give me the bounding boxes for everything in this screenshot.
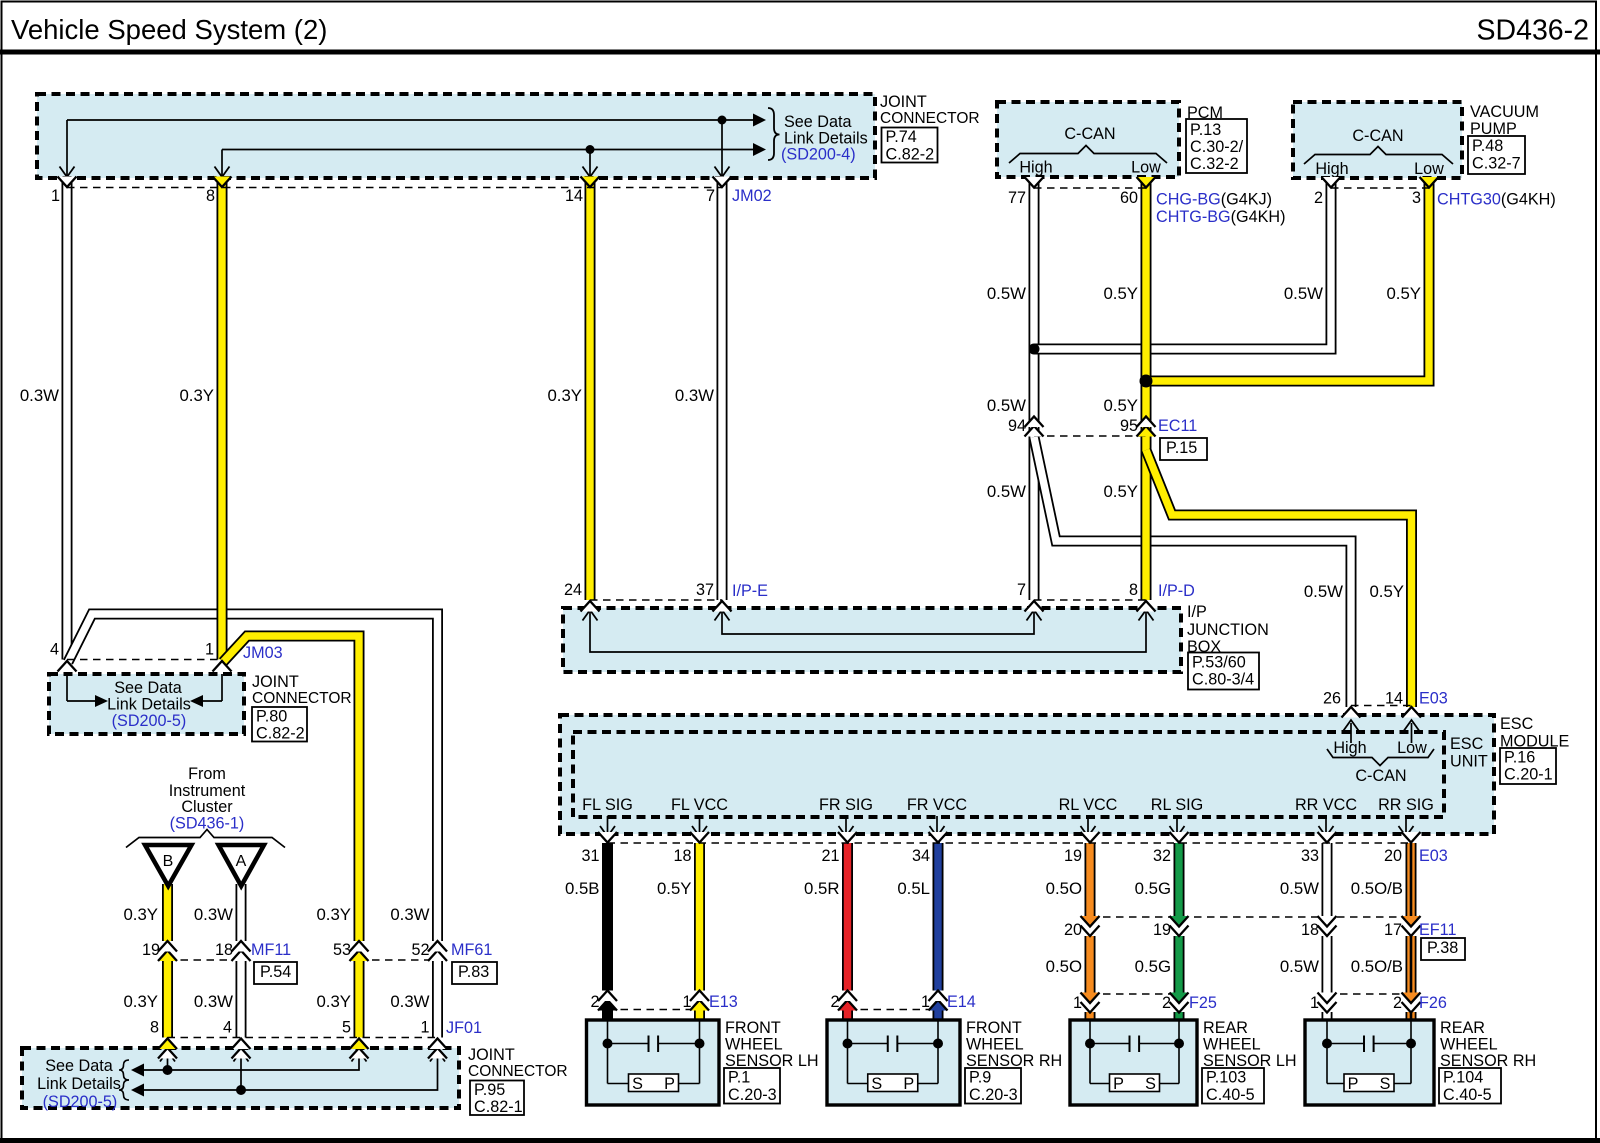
svg-text:P: P <box>903 1075 914 1093</box>
svg-text:JM02: JM02 <box>732 187 772 205</box>
svg-text:32: 32 <box>1153 847 1171 865</box>
connector EF11 <box>1090 916 1411 918</box>
svg-text:0.3Y: 0.3Y <box>179 386 214 405</box>
connector I/P-E <box>590 599 722 601</box>
svg-text:High: High <box>1019 159 1052 177</box>
svg-text:C.82-1: C.82-1 <box>474 1098 523 1116</box>
svg-text:P.38: P.38 <box>1427 939 1458 957</box>
svg-text:0.5O: 0.5O <box>1046 879 1082 898</box>
svg-text:0.3W: 0.3W <box>390 992 429 1011</box>
connector JF01 <box>168 1037 438 1039</box>
svg-text:WHEEL: WHEEL <box>966 1036 1024 1054</box>
svg-text:UNIT: UNIT <box>1450 753 1488 771</box>
vacuum pump C-CAN box <box>1293 102 1462 178</box>
svg-text:94: 94 <box>1008 417 1026 435</box>
svg-text:CONNECTOR: CONNECTOR <box>252 690 352 707</box>
svg-text:0.5B: 0.5B <box>565 879 600 898</box>
svg-text:19: 19 <box>1153 921 1171 939</box>
svg-text:P.80: P.80 <box>256 708 287 726</box>
svg-text:18: 18 <box>673 847 691 865</box>
connector F25 <box>1090 993 1179 995</box>
svg-text:FR SIG: FR SIG <box>819 796 873 814</box>
svg-text:0.3W: 0.3W <box>20 386 59 405</box>
svg-text:E03: E03 <box>1419 690 1448 708</box>
svg-text:CHG-BG(G4KJ): CHG-BG(G4KJ) <box>1156 191 1272 209</box>
connector JM03 <box>67 659 222 661</box>
svg-text:Cluster: Cluster <box>181 798 233 816</box>
svg-text:0.3Y: 0.3Y <box>316 992 351 1011</box>
connector E03 pins 26/14 <box>1351 705 1412 707</box>
svg-text:P.9: P.9 <box>969 1069 991 1087</box>
connector vacuum pump pins 2/3 <box>1331 187 1429 189</box>
node A (from instrument cluster) <box>219 845 265 886</box>
wire (internal 37 to 7) <box>722 612 1034 634</box>
joint connector box (top, SD200-4) <box>37 94 875 178</box>
front wheel sensor RH <box>827 1020 960 1105</box>
svg-text:0.3Y: 0.3Y <box>123 905 158 924</box>
svg-text:SD436-2: SD436-2 <box>1477 15 1589 47</box>
PCM C-CAN box <box>997 102 1179 177</box>
connector MF61 <box>359 959 438 961</box>
wire 0.5W RR VCC <box>1322 843 1333 917</box>
wire 0.3Y JM02-14 to I/P-E 24 <box>585 178 596 600</box>
svg-text:E13: E13 <box>709 993 738 1011</box>
svg-text:C.20-3: C.20-3 <box>728 1086 777 1104</box>
svg-text:0.5W: 0.5W <box>987 396 1026 415</box>
svg-text:7: 7 <box>1017 581 1026 599</box>
connector F26 <box>1327 993 1411 995</box>
svg-text:14: 14 <box>1385 690 1403 708</box>
wire 0.3Y JM03-1 branch to MF61-53 / JF01-5 <box>223 636 359 941</box>
svg-text:P.48: P.48 <box>1472 137 1503 155</box>
svg-text:CHTG-BG(G4KH): CHTG-BG(G4KH) <box>1156 208 1286 226</box>
connector JM02 <box>67 187 722 189</box>
wire 0.5W PCM-77 to EC11-94 <box>1029 178 1040 437</box>
svg-text:FRONT: FRONT <box>966 1019 1022 1037</box>
svg-text:7: 7 <box>706 187 715 205</box>
svg-text:S: S <box>1380 1075 1391 1093</box>
svg-text:P.54: P.54 <box>260 963 291 981</box>
wire 0.5O RL VCC <box>1085 843 1096 917</box>
svg-text:JM03: JM03 <box>243 644 283 662</box>
svg-text:0.5Y: 0.5Y <box>1103 482 1138 501</box>
wire (internal 24 to 8) <box>590 612 1146 652</box>
wire 0.5R FR SIG <box>842 843 853 991</box>
svg-text:F26: F26 <box>1419 994 1447 1012</box>
wire (internal line 2: pins 4,1) <box>144 1053 438 1090</box>
svg-text:18: 18 <box>1301 921 1319 939</box>
svg-text:Low: Low <box>1397 739 1427 757</box>
svg-text:RL VCC: RL VCC <box>1059 796 1118 814</box>
svg-text:JUNCTION: JUNCTION <box>1187 621 1269 639</box>
node junction dot (pin 8) <box>163 1065 173 1075</box>
svg-text:26: 26 <box>1323 690 1341 708</box>
svg-text:P.95: P.95 <box>474 1081 505 1099</box>
svg-text:1: 1 <box>1073 994 1082 1012</box>
svg-text:S: S <box>632 1075 643 1093</box>
svg-text:C.80-3/4: C.80-3/4 <box>1192 671 1254 689</box>
connector I/P-D <box>1034 599 1146 601</box>
svg-text:0.5G: 0.5G <box>1135 879 1171 898</box>
svg-text:1: 1 <box>921 993 930 1011</box>
svg-text:14: 14 <box>565 187 583 205</box>
svg-text:C.20-3: C.20-3 <box>969 1086 1018 1104</box>
svg-text:Link Details: Link Details <box>107 696 191 714</box>
svg-text:4: 4 <box>50 641 59 659</box>
wire 0.3W JM02-7 to I/P-E 37 <box>717 178 728 600</box>
svg-text:2: 2 <box>1393 994 1402 1012</box>
svg-text:B: B <box>163 853 174 870</box>
svg-text:C.30-2/: C.30-2/ <box>1190 138 1244 156</box>
node junction: PCM white / vacuum white <box>1029 344 1040 355</box>
C-CAN High/Low inside ESC <box>1350 723 1352 743</box>
node junction: PCM yellow / vacuum yellow <box>1140 375 1153 388</box>
svg-text:EC11: EC11 <box>1158 417 1197 435</box>
svg-text:21: 21 <box>821 847 839 865</box>
svg-text:0.5W: 0.5W <box>987 284 1026 303</box>
svg-text:34: 34 <box>912 847 930 865</box>
svg-text:WHEEL: WHEEL <box>1440 1036 1498 1054</box>
svg-text:0.5R: 0.5R <box>804 879 839 898</box>
ESC module outer box <box>560 715 1494 834</box>
svg-text:24: 24 <box>564 581 582 599</box>
wire 0.5Y PCM-60 to EC11-95 <box>1141 178 1152 437</box>
svg-text:WHEEL: WHEEL <box>725 1036 783 1054</box>
svg-text:0.3W: 0.3W <box>390 905 429 924</box>
svg-text:RR SIG: RR SIG <box>1378 796 1434 814</box>
svg-text:3: 3 <box>1412 189 1421 207</box>
svg-text:19: 19 <box>1064 847 1082 865</box>
svg-text:2: 2 <box>1162 994 1171 1012</box>
svg-text:C.40-5: C.40-5 <box>1443 1086 1492 1104</box>
svg-text:1: 1 <box>420 1019 429 1037</box>
svg-text:0.3Y: 0.3Y <box>547 386 582 405</box>
svg-text:53: 53 <box>333 941 351 959</box>
svg-text:REAR: REAR <box>1440 1019 1485 1037</box>
svg-text:P.83: P.83 <box>458 963 489 981</box>
svg-text:0.5Y: 0.5Y <box>1103 396 1138 415</box>
svg-text:0.3W: 0.3W <box>675 386 714 405</box>
svg-text:RR VCC: RR VCC <box>1295 796 1357 814</box>
brace <box>768 108 780 160</box>
svg-text:0.3W: 0.3W <box>194 992 233 1011</box>
svg-text:JF01: JF01 <box>446 1019 482 1037</box>
svg-text:P.1: P.1 <box>728 1069 750 1087</box>
svg-text:C-CAN: C-CAN <box>1064 125 1115 143</box>
svg-text:S: S <box>1145 1075 1156 1093</box>
svg-text:95: 95 <box>1120 417 1138 435</box>
svg-text:C-CAN: C-CAN <box>1352 127 1403 145</box>
svg-text:0.5W: 0.5W <box>1280 879 1319 898</box>
svg-text:See Data: See Data <box>784 113 852 131</box>
svg-text:C.82-2: C.82-2 <box>886 146 935 164</box>
svg-text:FRONT: FRONT <box>725 1019 781 1037</box>
svg-text:1: 1 <box>205 641 214 659</box>
svg-text:High: High <box>1315 160 1348 178</box>
svg-text:33: 33 <box>1301 847 1319 865</box>
svg-text:0.3Y: 0.3Y <box>316 905 351 924</box>
rear wheel sensor RH <box>1305 1020 1434 1105</box>
svg-text:MF61: MF61 <box>451 941 492 959</box>
svg-text:37: 37 <box>696 581 714 599</box>
svg-text:Low: Low <box>1414 160 1444 178</box>
joint connector JF01 box (SD200-5) <box>22 1048 459 1108</box>
ESC unit inner box <box>573 732 1444 817</box>
wire 0.5Y vacuum pump low branch <box>1146 178 1429 381</box>
svg-text:(SD200-4): (SD200-4) <box>781 146 856 164</box>
brace over triangles <box>126 830 285 848</box>
svg-text:S: S <box>871 1075 882 1093</box>
svg-text:77: 77 <box>1008 189 1026 207</box>
svg-text:31: 31 <box>581 847 599 865</box>
svg-text:0.5Y: 0.5Y <box>657 879 692 898</box>
svg-text:0.3Y: 0.3Y <box>123 992 158 1011</box>
svg-text:19: 19 <box>142 941 160 959</box>
svg-text:See Data: See Data <box>45 1057 113 1075</box>
svg-text:JOINT: JOINT <box>468 1046 515 1064</box>
svg-text:P: P <box>1348 1075 1359 1093</box>
svg-text:ESC: ESC <box>1500 715 1534 733</box>
wire (data link line 1 inside box) <box>67 119 764 121</box>
svg-text:FL SIG: FL SIG <box>582 796 633 814</box>
svg-text:RL SIG: RL SIG <box>1151 796 1203 814</box>
svg-text:C.40-5: C.40-5 <box>1206 1086 1255 1104</box>
svg-text:E03: E03 <box>1419 847 1448 865</box>
connector E13 <box>608 1009 700 1011</box>
connector MF11 <box>168 959 242 961</box>
svg-text:1: 1 <box>51 187 60 205</box>
svg-text:17: 17 <box>1384 921 1402 939</box>
svg-text:A: A <box>236 853 247 870</box>
svg-text:0.5W: 0.5W <box>1304 582 1343 601</box>
svg-text:20: 20 <box>1064 921 1082 939</box>
front wheel sensor LH <box>587 1020 720 1105</box>
svg-text:8: 8 <box>1129 581 1138 599</box>
svg-text:0.3W: 0.3W <box>194 905 233 924</box>
svg-text:8: 8 <box>150 1019 159 1037</box>
wire 0.5W EC11-94 to I/P-D 7 <box>1029 436 1040 600</box>
svg-text:From: From <box>188 765 226 783</box>
svg-text:0.5W: 0.5W <box>1284 284 1323 303</box>
svg-text:P.53/60: P.53/60 <box>1192 654 1246 672</box>
svg-text:1: 1 <box>1310 994 1319 1012</box>
braces <box>119 1060 129 1080</box>
connector PCM pins 77/60 <box>1034 187 1146 189</box>
svg-text:JOINT: JOINT <box>252 673 299 691</box>
svg-text:2: 2 <box>830 993 839 1011</box>
svg-text:4: 4 <box>223 1019 232 1037</box>
svg-text:ESC: ESC <box>1450 735 1484 753</box>
connector E14 <box>848 1009 939 1011</box>
wire (data link line 2 inside box) <box>222 149 764 151</box>
wire 0.3Y B to MF11-19 / JF01-8 <box>162 884 173 941</box>
connector EC11 <box>1034 435 1146 437</box>
node junction dot on line 1 <box>718 116 727 125</box>
svg-text:FR VCC: FR VCC <box>907 796 968 814</box>
svg-text:MF11: MF11 <box>251 941 291 959</box>
svg-text:52: 52 <box>411 941 429 959</box>
svg-text:0.5W: 0.5W <box>1280 957 1319 976</box>
wire 0.3W JM02-1 to JM03-4 <box>62 178 73 660</box>
rear wheel sensor LH <box>1070 1020 1197 1105</box>
wire 0.5Y EC11-95 to I/P-D 8 <box>1141 436 1152 600</box>
svg-text:0.5W: 0.5W <box>987 482 1026 501</box>
svg-text:0.5Y: 0.5Y <box>1369 582 1404 601</box>
svg-text:20: 20 <box>1384 847 1402 865</box>
svg-text:C.82-2: C.82-2 <box>256 725 305 743</box>
svg-text:P.74: P.74 <box>886 128 917 146</box>
svg-text:High: High <box>1333 739 1366 757</box>
svg-text:P.103: P.103 <box>1206 1069 1246 1087</box>
svg-text:5: 5 <box>342 1019 351 1037</box>
svg-text:F25: F25 <box>1189 994 1217 1012</box>
svg-text:VACUUM: VACUUM <box>1470 103 1539 121</box>
svg-text:P.15: P.15 <box>1166 439 1197 457</box>
svg-text:0.5Y: 0.5Y <box>1386 284 1421 303</box>
svg-text:1: 1 <box>682 993 691 1011</box>
svg-text:I/P: I/P <box>1187 603 1207 621</box>
node junction dot on line 2 <box>586 145 595 154</box>
svg-text:Link Details: Link Details <box>37 1075 121 1093</box>
svg-text:0.5L: 0.5L <box>897 879 930 898</box>
wire 0.3W JM03-4 branch to MF61-52 / JF01-1 <box>68 614 438 941</box>
wire 0.5B FL SIG <box>602 843 613 991</box>
svg-text:C.32-2: C.32-2 <box>1190 155 1239 173</box>
wire 0.5Y FL VCC <box>694 843 705 991</box>
wire 0.5W vacuum pump high branch <box>1034 178 1331 349</box>
svg-text:18: 18 <box>215 941 233 959</box>
wire 0.3W A to MF11-18 / JF01-4 <box>236 884 247 941</box>
svg-text:I/P-E: I/P-E <box>732 582 768 600</box>
svg-text:CHTG30(G4KH): CHTG30(G4KH) <box>1437 191 1556 209</box>
I/P junction box <box>563 608 1181 672</box>
wire 0.5G RL SIG <box>1174 843 1185 917</box>
svg-text:P.16: P.16 <box>1504 749 1535 767</box>
svg-text:CONNECTOR: CONNECTOR <box>880 110 980 127</box>
svg-text:C.32-7: C.32-7 <box>1472 155 1521 173</box>
svg-text:P.104: P.104 <box>1443 1069 1483 1087</box>
connector E03 sensor row <box>608 842 1412 844</box>
wire 0.5Y EC11 branch to ESC 14 <box>1146 450 1412 707</box>
svg-text:See Data: See Data <box>114 679 182 697</box>
svg-text:0.5O: 0.5O <box>1046 957 1082 976</box>
joint connector JM03 box (SD200-5) <box>49 674 244 734</box>
svg-text:0.5Y: 0.5Y <box>1103 284 1138 303</box>
svg-text:2: 2 <box>1314 189 1323 207</box>
wire 0.5L FR VCC <box>933 843 944 991</box>
wire 0.5O/B RR SIG <box>1406 843 1417 917</box>
svg-text:0.5G: 0.5G <box>1135 957 1171 976</box>
svg-text:REAR: REAR <box>1203 1019 1248 1037</box>
svg-text:C-CAN: C-CAN <box>1355 767 1406 785</box>
svg-text:0.5O/B: 0.5O/B <box>1351 957 1403 976</box>
svg-text:2: 2 <box>590 993 599 1011</box>
svg-text:P: P <box>664 1075 675 1093</box>
wire 0.5W EC11 branch to ESC 26 <box>1034 437 1351 707</box>
wire (internal line 1: pins 8,5) <box>144 1053 359 1070</box>
svg-text:I/P-D: I/P-D <box>1158 582 1195 600</box>
svg-text:P.13: P.13 <box>1190 121 1221 139</box>
svg-text:C.20-1: C.20-1 <box>1504 766 1553 784</box>
node B (from instrument cluster) <box>145 845 192 886</box>
svg-text:(SD200-5): (SD200-5) <box>43 1093 118 1111</box>
svg-text:Low: Low <box>1131 159 1161 177</box>
svg-text:FL VCC: FL VCC <box>671 796 728 814</box>
svg-text:8: 8 <box>206 187 215 205</box>
svg-text:0.5O/B: 0.5O/B <box>1351 879 1403 898</box>
svg-text:E14: E14 <box>947 993 976 1011</box>
wire 0.3Y JM02-8 to JM03-1 <box>217 178 228 660</box>
svg-text:JOINT: JOINT <box>880 93 927 111</box>
svg-text:Vehicle Speed System (2): Vehicle Speed System (2) <box>11 14 327 45</box>
svg-text:P: P <box>1113 1075 1124 1093</box>
svg-text:60: 60 <box>1120 189 1138 207</box>
svg-text:CONNECTOR: CONNECTOR <box>468 1063 568 1080</box>
svg-text:EF11: EF11 <box>1419 921 1457 939</box>
svg-text:(SD200-5): (SD200-5) <box>112 712 187 730</box>
node junction dot (pin 4) <box>236 1085 246 1095</box>
svg-text:WHEEL: WHEEL <box>1203 1036 1261 1054</box>
